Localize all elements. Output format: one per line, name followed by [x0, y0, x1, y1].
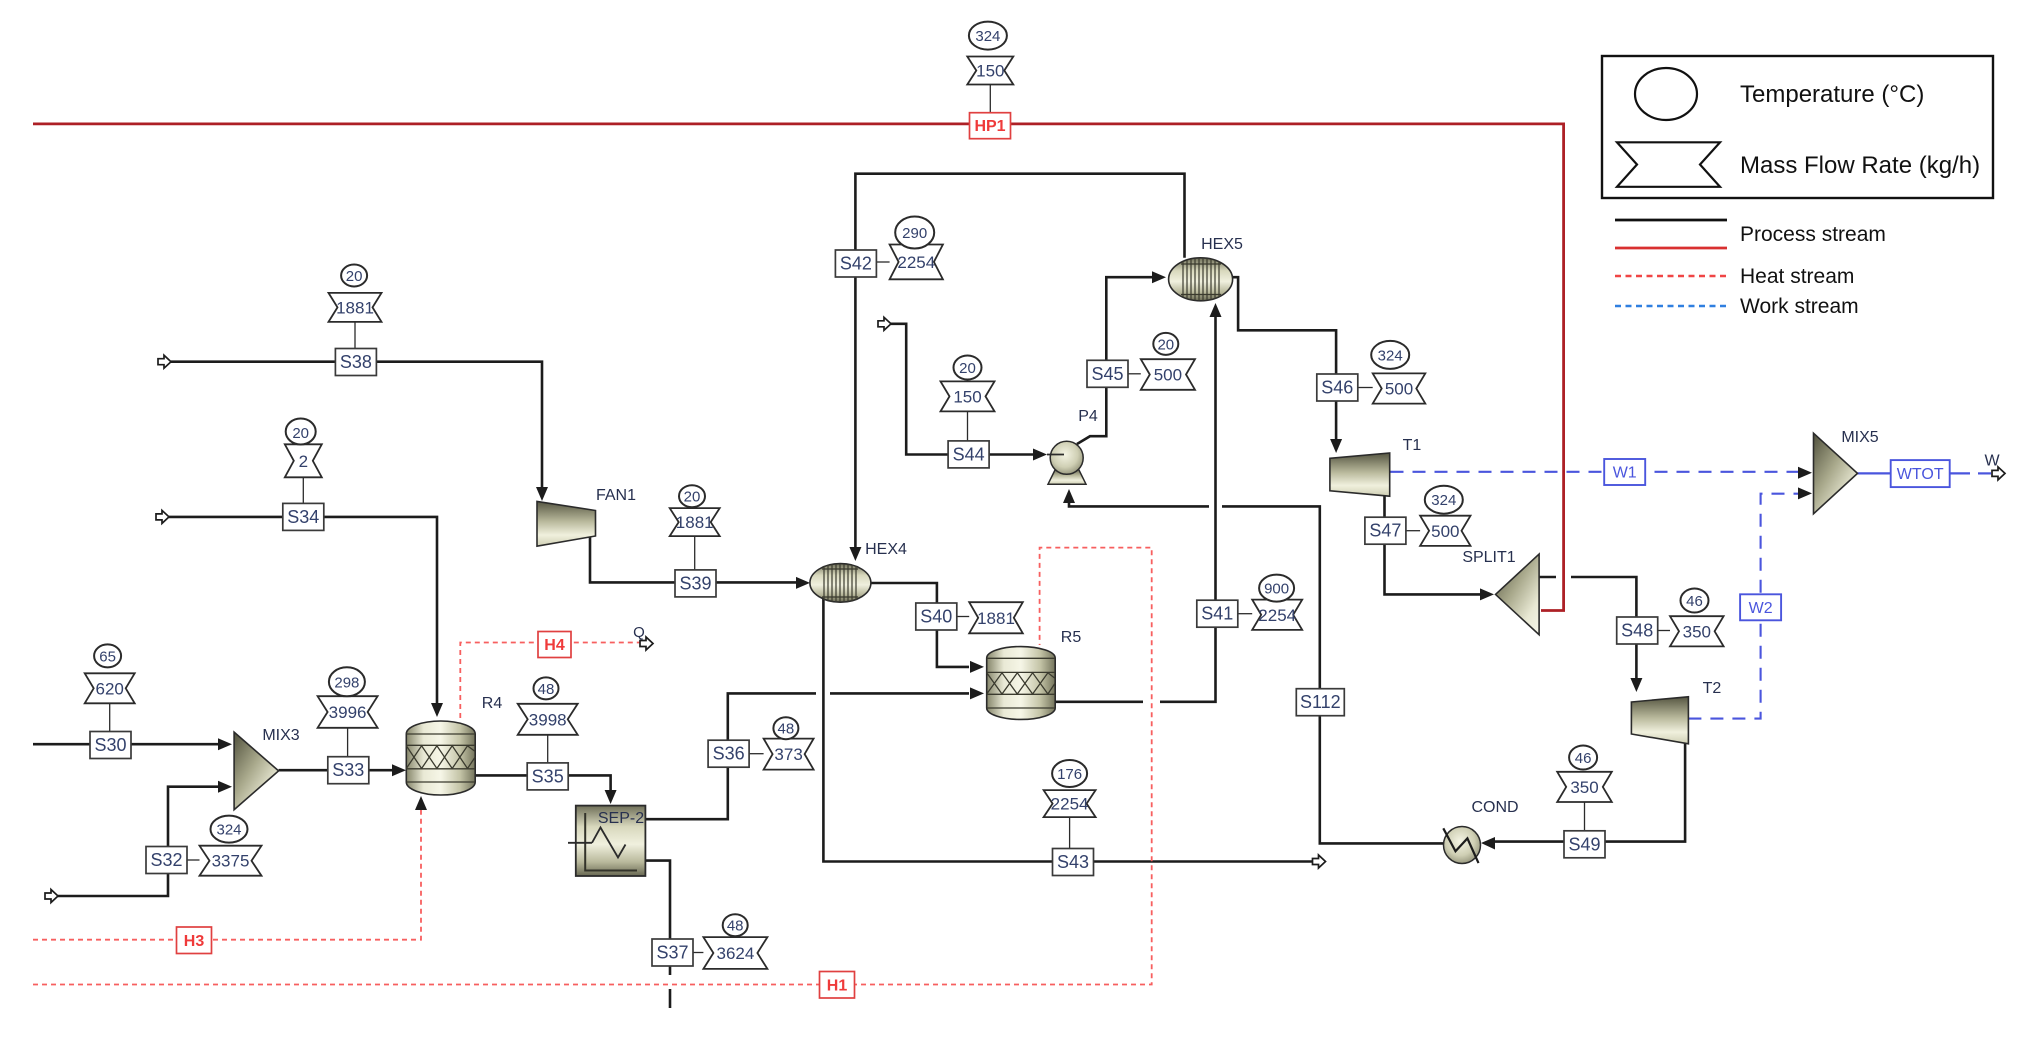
tick S44 [967, 412, 969, 441]
svg-text:SEP-2: SEP-2 [598, 810, 644, 827]
tick S35 [547, 735, 549, 763]
svg-text:W1: W1 [1613, 465, 1637, 482]
value banner S38 flow 1881 [329, 293, 382, 322]
node S39 label box [675, 570, 716, 597]
svg-text:500: 500 [1431, 522, 1459, 541]
wire S49 T2 to COND [1495, 728, 1685, 842]
value banner S32 flow 3375 [200, 846, 262, 876]
node S38 label box [335, 349, 376, 376]
wire S40 HEX4 to R5 upper inlet [871, 583, 969, 667]
svg-text:3624: 3624 [716, 944, 754, 963]
node S40 label box [916, 603, 957, 630]
svg-text:Process stream: Process stream [1740, 223, 1886, 246]
work stream W2 T2 to MIX5 [1688, 494, 1798, 719]
condenser COND [1443, 827, 1480, 864]
tick S48 [1658, 630, 1670, 632]
svg-text:20: 20 [346, 268, 363, 285]
arrowhead W1 into MIX5 [1798, 467, 1812, 479]
node S43 label box [1053, 849, 1094, 876]
svg-text:65: 65 [99, 648, 116, 665]
mixer MIX3 [234, 732, 279, 810]
open arrow Q outlet H4 [640, 637, 653, 650]
heat exchanger HEX4 [810, 564, 871, 603]
svg-text:W: W [1984, 453, 2000, 470]
node WTOT work label box [1891, 460, 1950, 487]
wire S37 lower segment [669, 989, 672, 1008]
svg-text:1881: 1881 [977, 609, 1015, 628]
svg-text:S48: S48 [1621, 621, 1653, 641]
wire S32 feed to MIX3 [58, 787, 218, 896]
wire S36 segment after crossing [830, 692, 969, 695]
wire S46 HEX5 to T1 [1233, 277, 1337, 439]
svg-text:S46: S46 [1321, 378, 1353, 398]
arrowhead S41 into HEX5 bottom [1210, 303, 1222, 317]
wire S43 HEX4 bottom to product [823, 598, 1312, 862]
svg-text:Q: Q [633, 624, 645, 641]
svg-text:3996: 3996 [329, 703, 367, 722]
tick S40 [957, 616, 969, 618]
arrowhead S33 into R4 [392, 764, 406, 776]
legend temperature ellipse [1635, 68, 1697, 120]
fan FAN1 [537, 501, 596, 546]
arrowhead S36 into R5 [970, 687, 984, 699]
svg-text:324: 324 [975, 28, 1000, 45]
svg-text:20: 20 [684, 489, 701, 506]
svg-text:176: 176 [1057, 766, 1082, 783]
svg-text:S112: S112 [1300, 692, 1341, 712]
tick S39 [694, 536, 696, 570]
tick S47 [1406, 530, 1420, 532]
svg-text:48: 48 [538, 681, 555, 698]
svg-text:20: 20 [292, 425, 309, 442]
svg-text:Work stream: Work stream [1740, 295, 1859, 318]
svg-text:R5: R5 [1061, 629, 1082, 646]
svg-text:3375: 3375 [212, 852, 250, 871]
arrowhead S42 into HEX4 top [849, 547, 861, 561]
svg-text:FAN1: FAN1 [596, 487, 636, 504]
node H4 heat label box [538, 632, 571, 658]
svg-text:MIX3: MIX3 [262, 727, 299, 744]
pump P4 [1047, 441, 1086, 484]
svg-text:20: 20 [959, 360, 976, 377]
wire S30 feed to MIX3 [33, 743, 218, 746]
open feed arrow S34 [156, 510, 169, 523]
value banner S43 flow 2254 [1044, 790, 1096, 817]
svg-text:S44: S44 [953, 444, 985, 464]
node S48 label box [1617, 617, 1658, 644]
svg-text:298: 298 [334, 674, 359, 691]
open product arrow S43 [1313, 855, 1326, 868]
value banner S49 flow 350 [1557, 772, 1612, 802]
svg-text:SPLIT1: SPLIT1 [1462, 549, 1515, 566]
svg-text:48: 48 [778, 721, 795, 738]
svg-text:S45: S45 [1091, 364, 1123, 384]
arrowhead S38 into FAN1 [536, 487, 548, 501]
work stream W1 T1 to MIX5 [1391, 471, 1799, 473]
heat stream H1 to R5 top [33, 548, 1152, 985]
node S44 label box [948, 441, 989, 468]
wire S112 COND to P4 bottom [1222, 506, 1443, 843]
arrowhead S32 into MIX3 [218, 781, 232, 793]
wire S41 R5 outlet to HEX5 bottom [1055, 700, 1143, 703]
svg-text:WTOT: WTOT [1897, 466, 1944, 483]
svg-text:S38: S38 [340, 352, 372, 372]
node W1 work label box [1604, 459, 1645, 485]
node S32 label box [146, 847, 187, 874]
value banner S37 flow 3624 [703, 937, 767, 969]
reactor R4 [406, 721, 475, 795]
arrowhead H3 into R4 bottom [415, 796, 427, 810]
tick S42 [877, 261, 890, 263]
svg-text:S41: S41 [1201, 604, 1233, 624]
heat exchanger HEX5 [1169, 258, 1233, 301]
svg-text:H4: H4 [544, 637, 565, 654]
open product arrow W [1992, 467, 2005, 480]
svg-text:1881: 1881 [336, 298, 374, 317]
tick S43 [1069, 817, 1071, 848]
tick S32 [187, 859, 199, 861]
value banner S35 flow 3998 [518, 704, 578, 735]
svg-text:S40: S40 [920, 607, 952, 627]
value ellipse S49 temperature 46 [1569, 746, 1597, 770]
svg-text:350: 350 [1570, 778, 1598, 797]
svg-text:HEX4: HEX4 [865, 541, 907, 558]
value banner S45 flow 500 [1141, 359, 1195, 390]
svg-text:3998: 3998 [529, 710, 567, 729]
tick S36 [749, 753, 763, 755]
svg-text:350: 350 [1683, 622, 1711, 641]
svg-text:S49: S49 [1568, 834, 1600, 854]
svg-text:H1: H1 [827, 978, 848, 995]
open feed arrow S38 [158, 355, 171, 368]
legend process stream black line [1615, 219, 1727, 222]
arrowhead S39 into HEX4 [796, 577, 810, 589]
value ellipse S37 temperature 48 [723, 914, 748, 936]
svg-text:46: 46 [1575, 750, 1592, 767]
svg-text:S39: S39 [679, 573, 711, 593]
svg-text:HEX5: HEX5 [1201, 236, 1243, 253]
tick S46 [1358, 387, 1373, 389]
svg-text:1881: 1881 [676, 513, 714, 532]
tick S45 [1128, 373, 1141, 375]
svg-text:S32: S32 [150, 850, 182, 870]
node S41 label box [1197, 600, 1238, 627]
svg-text:2: 2 [299, 452, 308, 471]
node S49 label box [1564, 831, 1605, 858]
legend mass flow banner [1617, 142, 1720, 187]
value banner S48 flow 350 [1670, 616, 1724, 646]
value banner S40 flow 1881 [969, 602, 1023, 633]
svg-text:373: 373 [774, 745, 802, 764]
svg-text:H3: H3 [184, 933, 205, 950]
value ellipse S34 temperature 20 [286, 419, 316, 445]
tick S30 [109, 703, 111, 731]
open feed arrow S32 [45, 890, 58, 903]
node S42 label box [835, 250, 876, 277]
value banner S36 flow 373 [764, 739, 814, 770]
tick HP1 [989, 85, 991, 113]
svg-text:46: 46 [1686, 593, 1703, 610]
node H1 heat label box [820, 972, 855, 999]
svg-text:290: 290 [902, 225, 927, 242]
arrowhead S45 into HEX5 [1152, 271, 1166, 283]
wire S36 SEP-2 to R5 lower inlet [645, 693, 816, 819]
node S35 label box [527, 763, 568, 790]
value ellipse S42 temperature 290 [895, 217, 934, 249]
node HP1 heat label box [970, 113, 1011, 139]
svg-text:48: 48 [727, 918, 744, 935]
value banner S46 flow 500 [1373, 373, 1426, 403]
svg-text:Heat stream: Heat stream [1740, 265, 1854, 288]
splitter SPLIT1 [1496, 554, 1540, 635]
value ellipse S32 temperature 324 [211, 816, 248, 843]
svg-text:324: 324 [1431, 492, 1456, 509]
svg-text:S47: S47 [1369, 521, 1401, 541]
node S33 label box [328, 757, 369, 784]
svg-text:S36: S36 [713, 744, 745, 764]
arrowhead S47 into SPLIT1 [1480, 588, 1494, 600]
arrowhead S40 into R5 [970, 661, 984, 673]
tick S41 [1238, 613, 1252, 615]
arrowhead S46 into T1 [1330, 439, 1342, 453]
value ellipse S44 temperature 20 [954, 356, 982, 380]
svg-text:20: 20 [1157, 336, 1174, 353]
arrowhead S34 into R4 [431, 703, 443, 717]
arrowhead S30 into MIX3 [218, 738, 232, 750]
value banner S30 flow 620 [85, 673, 135, 703]
svg-text:324: 324 [1378, 347, 1403, 364]
arrowhead S44 into P4 [1033, 449, 1047, 461]
svg-text:900: 900 [1264, 581, 1289, 598]
value ellipse S43 temperature 176 [1052, 760, 1087, 787]
svg-text:150: 150 [976, 62, 1004, 81]
svg-text:S33: S33 [332, 760, 364, 780]
wire S48 SPLIT1 to T2 [1539, 576, 1556, 579]
node S30 label box [90, 732, 131, 759]
value ellipse S47 temperature 324 [1425, 486, 1463, 514]
svg-text:MIX5: MIX5 [1841, 429, 1878, 446]
value banner S39 flow 1881 [670, 508, 720, 536]
arrowhead S112 into P4 bottom [1063, 489, 1075, 503]
value banner HP1 flow 150 [967, 57, 1013, 85]
svg-text:Mass Flow Rate (kg/h): Mass Flow Rate (kg/h) [1740, 152, 1980, 179]
value banner S42 flow 2254 [890, 245, 943, 280]
legend process stream red line [1615, 247, 1727, 250]
value banner S33 flow 3996 [318, 696, 378, 728]
wire S33 MIX3 to R4 [279, 769, 392, 772]
value ellipse S33 temperature 298 [329, 667, 365, 696]
wire S112 segment after crossing [1069, 503, 1209, 506]
wire S38 feed to FAN1 [171, 362, 542, 487]
value ellipse S30 temperature 65 [94, 644, 121, 667]
svg-text:2254: 2254 [897, 253, 935, 272]
wire S34 feed to R4 top [169, 517, 437, 703]
svg-text:S34: S34 [287, 507, 319, 527]
value ellipse S45 temperature 20 [1153, 333, 1178, 355]
value banner S34 flow 2 [285, 444, 322, 477]
arrowhead W2 into MIX5 [1798, 487, 1812, 499]
value ellipse S36 temperature 48 [773, 717, 798, 739]
wire S47 T1 to SPLIT1 [1385, 494, 1481, 594]
separator SEP-2 [568, 806, 645, 876]
wire S35 R4 to SEP-2 [476, 775, 611, 790]
tick S49 [1584, 802, 1586, 831]
legend box [1602, 56, 1993, 198]
tick S34 [302, 478, 304, 504]
svg-text:HP1: HP1 [974, 118, 1005, 135]
wire S45 P4 to HEX5 [1077, 277, 1152, 444]
tick S37 [693, 952, 703, 954]
turbine T1 [1330, 453, 1390, 496]
value banner S44 flow 150 [941, 381, 995, 411]
wire S39 FAN1 to HEX4 [590, 535, 796, 582]
mixer MIX5 [1814, 433, 1858, 514]
legend work stream dashed line [1615, 305, 1727, 308]
arrowhead S48 into T2 [1630, 678, 1642, 692]
wire S44 feed to P4 [891, 324, 1033, 455]
svg-text:620: 620 [96, 679, 124, 698]
wire S48 segment after red crossing [1571, 577, 1636, 678]
node S46 label box [1317, 374, 1358, 401]
svg-text:S42: S42 [840, 254, 872, 274]
tick S33 [347, 728, 349, 757]
value banner S41 flow 2254 [1252, 600, 1302, 630]
work stream WTOT MIX5 outlet [1858, 472, 1971, 474]
svg-text:W2: W2 [1749, 600, 1773, 617]
value ellipse S41 temperature 900 [1259, 575, 1294, 602]
turbine T2 [1631, 697, 1688, 744]
value ellipse S46 temperature 324 [1371, 341, 1409, 369]
node S47 label box [1365, 517, 1406, 544]
value ellipse S48 temperature 46 [1681, 589, 1709, 613]
node S112 label box [1296, 689, 1344, 716]
open feed arrow S44 [878, 317, 891, 330]
svg-text:150: 150 [953, 387, 981, 406]
wire S42 HEX5 to HEX4 [855, 174, 1184, 547]
wire HP1 red process stream SPLIT1 recycle [33, 124, 1564, 611]
heat stream H4 from R4 to Q [460, 643, 640, 719]
svg-text:S30: S30 [94, 735, 126, 755]
svg-text:P4: P4 [1078, 408, 1098, 425]
node S45 label box [1087, 360, 1128, 387]
legend heat stream dashed line [1615, 275, 1727, 278]
node S36 label box [708, 740, 749, 767]
svg-text:S37: S37 [656, 943, 688, 963]
svg-text:COND: COND [1471, 799, 1518, 816]
node W2 work label box [1740, 594, 1781, 620]
arrowhead S35 into SEP-2 [605, 790, 617, 804]
node S37 label box [652, 939, 693, 966]
value ellipse S38 temperature 20 [341, 265, 367, 287]
value ellipse S39 temperature 20 [679, 485, 705, 507]
value ellipse HP1 temperature 324 [969, 22, 1007, 50]
svg-text:R4: R4 [482, 695, 503, 712]
svg-text:2254: 2254 [1258, 606, 1296, 625]
svg-text:T2: T2 [1703, 680, 1722, 697]
svg-text:324: 324 [216, 822, 241, 839]
svg-text:Temperature (°C): Temperature (°C) [1740, 81, 1924, 108]
reactor R5 [987, 647, 1055, 720]
svg-text:500: 500 [1385, 380, 1413, 399]
svg-text:2254: 2254 [1051, 795, 1089, 814]
value ellipse S35 temperature 48 [534, 677, 559, 699]
svg-text:T1: T1 [1403, 437, 1422, 454]
svg-text:500: 500 [1154, 366, 1182, 385]
value banner S47 flow 500 [1420, 516, 1470, 546]
tick S38 [354, 322, 356, 348]
node H3 heat label box [177, 927, 212, 954]
work stream WTOT dash to W [1978, 472, 1991, 474]
svg-text:S35: S35 [532, 766, 564, 786]
svg-text:S43: S43 [1057, 852, 1089, 872]
wire S41 segment after heat-stream crossing [1160, 317, 1216, 702]
node S34 label box [283, 503, 324, 530]
wire S37 SEP-2 bottom outlet [645, 861, 670, 975]
arrowhead S49 into COND [1481, 837, 1495, 850]
heat stream H3 to R4 bottom [33, 808, 421, 940]
